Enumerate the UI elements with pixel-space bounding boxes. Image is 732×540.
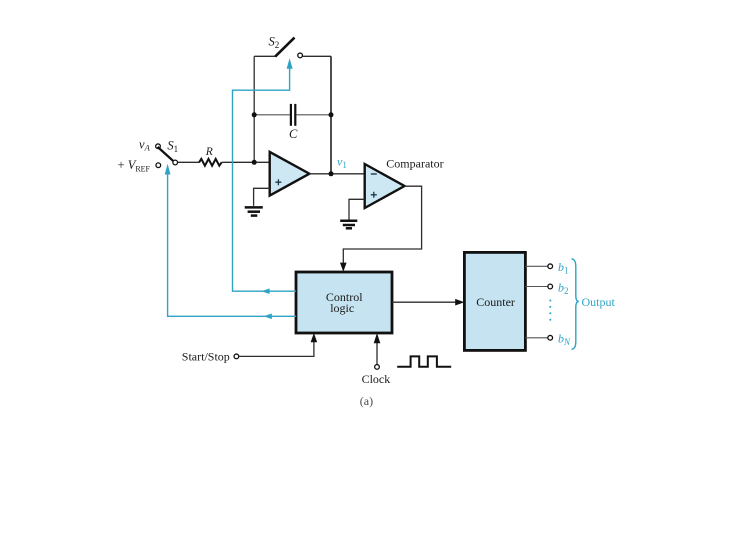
arrowhead Clock into box <box>374 333 381 343</box>
terminal VREF <box>156 163 161 168</box>
svg-text:Counter: Counter <box>476 295 515 309</box>
arrowhead Start/Stop into box <box>311 333 318 342</box>
op-amp U1 integrator <box>270 152 310 196</box>
clock waveform <box>397 356 451 366</box>
cyan arrowhead on control-S1 wire <box>264 314 272 320</box>
wire: S2 left horizontal <box>254 55 275 57</box>
svg-text:bN: bN <box>558 331 571 347</box>
svg-text:R: R <box>205 146 213 158</box>
cyan arrowhead at S2 <box>287 58 293 69</box>
box: Control logic <box>296 272 392 333</box>
wire: Clock to control logic <box>376 343 378 364</box>
terminal vA <box>156 144 161 149</box>
wire: capacitor branch horizontal <box>254 114 290 116</box>
junction: input node <box>252 160 257 165</box>
wire: right vertical (S2/cap to output node) <box>330 56 332 174</box>
svg-text:S2: S2 <box>269 35 280 50</box>
op-amp U1 plus sign <box>275 179 281 185</box>
wire: U1 output to comparator <box>309 173 364 175</box>
wire: control logic to counter <box>392 301 456 303</box>
arrowhead into control logic top <box>340 263 347 272</box>
terminal bN <box>548 335 553 340</box>
terminal: S1 pole <box>173 160 178 165</box>
capacitor C plates <box>290 104 292 126</box>
wire: bN output <box>525 337 547 339</box>
wire: S2 right horizontal <box>303 55 331 57</box>
wire: b1 output <box>525 265 547 267</box>
box: Counter <box>464 252 525 350</box>
wire: Start/Stop to control logic <box>239 341 314 356</box>
cyan arrowhead at S1 <box>165 164 171 175</box>
cyan arrowhead on control-S2 wire <box>262 288 270 294</box>
svg-text:b1: b1 <box>558 260 569 276</box>
op-amp U2 comparator <box>365 164 405 208</box>
svg-text:Start/Stop: Start/Stop <box>182 350 230 364</box>
cyan wire: control to S2 <box>233 67 297 291</box>
svg-text:logic: logic <box>330 301 354 315</box>
wire: feedback left vertical (cap/S2 branch to input node) <box>253 56 255 162</box>
junction: cap right <box>329 112 334 117</box>
svg-text:b2: b2 <box>558 281 569 297</box>
svg-text:+ VREF: + VREF <box>118 158 151 174</box>
svg-text:Comparator: Comparator <box>386 157 443 171</box>
wire: pole to resistor <box>178 161 200 163</box>
output brace <box>572 259 579 350</box>
cyan wire: control to S1 <box>168 171 296 316</box>
junction: cap left <box>252 112 257 117</box>
svg-text:Output: Output <box>582 295 616 309</box>
switch S2 blade <box>275 38 294 57</box>
svg-text:vA: vA <box>139 137 151 152</box>
resistor R zigzag <box>199 159 222 166</box>
terminal Start/Stop <box>234 354 239 359</box>
svg-text:Clock: Clock <box>362 372 391 386</box>
U2 minus sign <box>371 173 377 175</box>
wire: resistor to op-amp input <box>222 161 270 163</box>
svg-text:(a): (a) <box>360 394 373 408</box>
arrowhead into counter <box>455 299 464 306</box>
svg-text:C: C <box>289 127 298 141</box>
ellipsis dots <box>549 300 551 321</box>
wire: b2 output <box>525 286 547 288</box>
wire: U2 noninverting input to ground <box>349 199 365 220</box>
wire: U1 noninverting input to ground <box>254 188 270 206</box>
terminal b2 <box>548 284 553 289</box>
ground: U1 <box>245 207 263 215</box>
terminal b1 <box>548 264 553 269</box>
svg-text:S1: S1 <box>167 139 178 154</box>
ground: U2 <box>340 221 357 229</box>
terminal: S2 open contact <box>298 53 303 58</box>
wire: comparator output to control logic <box>343 186 421 264</box>
U2 plus sign <box>371 192 377 198</box>
terminal Clock <box>375 365 380 370</box>
junction: output node v1 <box>329 171 334 176</box>
switch S1 blade <box>158 147 174 162</box>
svg-text:v1: v1 <box>337 155 347 171</box>
